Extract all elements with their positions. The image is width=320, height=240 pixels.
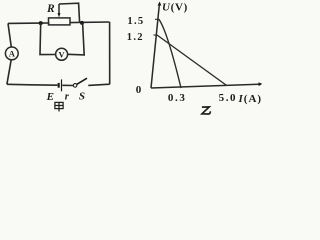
graph x-axis I xyxy=(151,82,262,88)
wire top-left segment xyxy=(8,22,50,24)
resistor R body xyxy=(49,18,71,25)
svg-text:U(V): U(V) xyxy=(162,2,188,14)
wire bottom left to battery xyxy=(7,83,58,86)
wire voltmeter loop right leg xyxy=(68,23,85,55)
wire slider loop xyxy=(59,3,80,22)
ammeter A xyxy=(5,47,18,60)
wire resistor to top-right corner xyxy=(70,21,110,24)
graph line steep from 1.5 xyxy=(159,19,181,88)
svg-text:0.3: 0.3 xyxy=(168,92,187,104)
rheostat slider arrow xyxy=(58,4,61,18)
switch S xyxy=(73,78,87,87)
svg-text:V: V xyxy=(59,49,66,59)
tick 1.5 xyxy=(155,18,159,20)
wire switch to bottom-right corner xyxy=(88,84,109,85)
svg-text:1.5: 1.5 xyxy=(127,16,144,27)
svg-text:I(A): I(A) xyxy=(238,93,263,105)
node right junction xyxy=(80,21,84,25)
graph y-axis U xyxy=(151,2,161,89)
svg-text:S: S xyxy=(79,91,85,103)
svg-text:A: A xyxy=(9,48,16,58)
wire left side upper xyxy=(8,23,11,47)
label jia (figure 1) xyxy=(55,102,63,111)
wire battery to switch xyxy=(62,84,73,86)
label yi (figure 2) xyxy=(202,107,210,114)
tick 1.2 xyxy=(153,34,157,36)
wire right side xyxy=(109,22,111,84)
battery E r xyxy=(59,79,62,91)
wire left side lower xyxy=(7,60,11,85)
svg-text:r: r xyxy=(65,92,70,103)
svg-text:1.2: 1.2 xyxy=(127,32,144,43)
svg-text:E: E xyxy=(46,91,54,103)
wire voltmeter loop left leg xyxy=(40,23,56,54)
svg-text:5.0: 5.0 xyxy=(219,92,238,104)
svg-text:0: 0 xyxy=(136,84,142,96)
voltmeter V xyxy=(56,48,68,60)
svg-text:R: R xyxy=(46,3,55,15)
graph line shallow from 1.2 xyxy=(157,35,226,85)
node left junction xyxy=(39,21,43,25)
